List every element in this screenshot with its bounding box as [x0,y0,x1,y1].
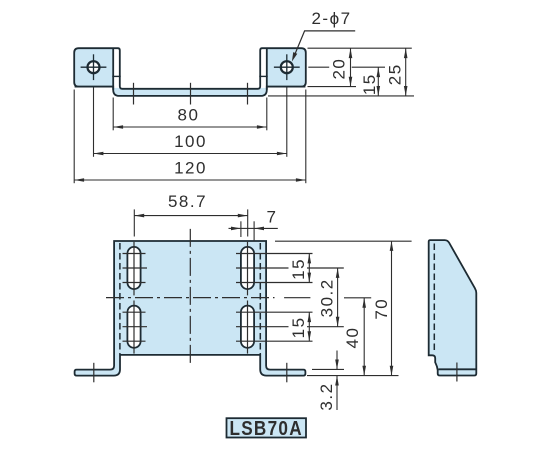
slot top-left [123,242,148,296]
ext plate top right (for 70) [275,240,412,242]
ext centerline right (for 40) [344,297,371,299]
side profile outline [429,240,477,375]
left tab bottom edge [75,86,114,88]
svg-text:3.2: 3.2 [317,382,336,410]
hole left phi7 [81,54,107,80]
svg-text:120: 120 [174,159,207,178]
svg-text:40: 40 [343,327,362,349]
dim 3.2 arrows outside [317,351,337,411]
svg-text:70: 70 [372,298,391,320]
dim 80 [113,106,267,128]
svg-text:30.2: 30.2 [317,278,336,317]
ext line 80 left [112,98,114,131]
ext slot arc lines right column [236,254,344,342]
right fold outer line [266,49,268,90]
dim 58.7 [134,192,247,216]
side hole center tick [456,363,458,382]
dim 15 [360,67,379,96]
label 2-phi7 with leader arrow [292,9,355,62]
ext line 100 left [93,88,95,157]
vertical centerline [189,229,191,363]
svg-text:58.7: 58.7 [168,192,207,211]
slot top-right [241,242,254,296]
ext 58.7 left [133,209,135,236]
svg-text:LSB70A: LSB70A [229,418,303,440]
ext line channel bottom right [268,95,414,97]
dim 25 [385,48,405,96]
dim 15 lower [289,312,310,341]
dim 40 [343,298,364,376]
ext line 100 right [286,88,288,157]
dim 30.2 [317,268,337,327]
svg-text:15: 15 [289,316,308,338]
side bend hidden dashed line [433,244,435,352]
svg-text:25: 25 [385,63,404,85]
ext line 120 right [305,90,307,184]
slot bottom-left [123,301,148,354]
hole right phi7 [274,54,300,80]
ext 7 right [253,221,255,241]
svg-text:15: 15 [289,258,308,280]
left fold strip (white) [113,47,120,88]
dim 70 [372,241,392,376]
ext line 120 left [73,90,75,184]
right tab bottom edge [267,86,306,88]
ext line hole center right [308,66,385,68]
ext foot bottom [307,375,399,377]
svg-text:2-ϕ7: 2-ϕ7 [311,9,351,28]
svg-text:20: 20 [329,58,348,80]
left fold outer line [112,49,114,90]
dim 7 arrows outside [229,208,278,229]
bracket top-view outline [75,241,306,376]
dim 20 [329,48,350,86]
channel slot tick left [133,83,135,105]
slot bottom-right [241,301,254,354]
left fold bend tick [112,75,120,77]
ext line tab bottom right [308,86,357,88]
svg-text:7: 7 [267,208,278,227]
svg-text:100: 100 [174,132,207,151]
right fold strip (white) [260,47,267,88]
dim 100 [94,132,287,154]
channel center tick [190,83,192,105]
dim 15 upper [289,254,310,283]
side foot top edge [439,368,477,370]
ext line tab top right [308,47,412,49]
ext 58.7 right [247,209,249,236]
channel slot tick right [247,83,249,105]
bracket front outline [74,48,306,96]
right fold bend tick [259,75,267,77]
right bend hidden dashed line [259,243,261,354]
bracket front silhouette fill [74,48,306,96]
horizontal centerline [106,297,310,299]
right foot hole center tick [286,363,288,383]
dim 120 [74,159,306,181]
ext line 80 right [266,98,268,131]
ext foot top (for 3.2) [312,368,344,370]
svg-text:15: 15 [360,73,379,95]
ext 7 left [240,221,242,237]
left foot hole center tick [93,363,95,383]
svg-text:80: 80 [178,106,200,125]
LSB70A label box [227,418,307,440]
left bend hidden dashed line [119,243,121,354]
